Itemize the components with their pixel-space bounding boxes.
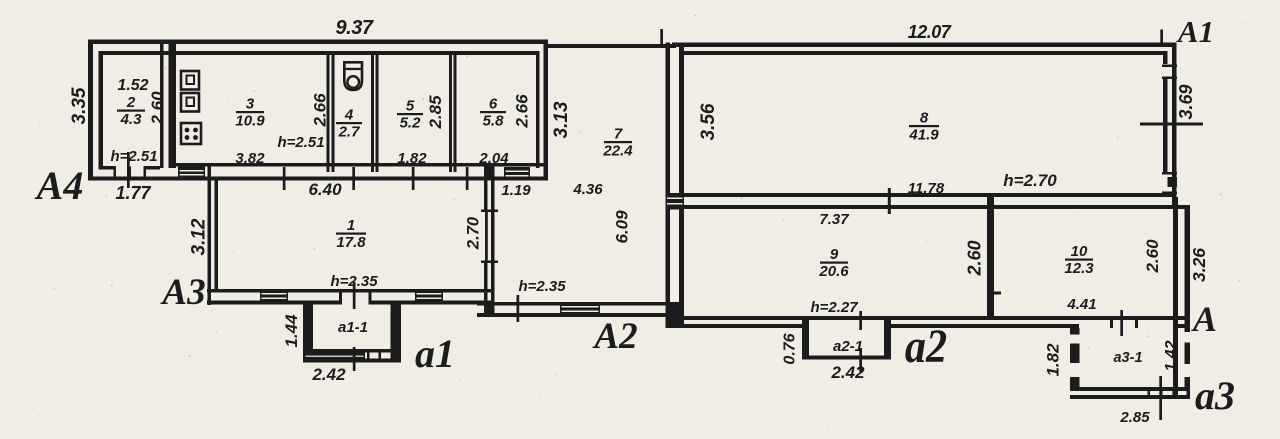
tick: divider foot flag	[989, 283, 992, 301]
tick: dimension 6.40 centre	[352, 167, 355, 190]
tick: a3-1 top (4.41)	[1120, 310, 1123, 336]
window: room 8 right wall lower opening	[1162, 172, 1177, 196]
fixture: stove with 4 burners (room 3)	[181, 123, 201, 144]
wall: a2-1 bottom	[802, 356, 891, 360]
wall: a1-1 left	[303, 305, 313, 363]
wall: room 1 right door leaf	[485, 212, 488, 261]
svg-text:1.77: 1.77	[115, 183, 151, 203]
wall: room 1 bottom top line (A3)	[207, 289, 495, 293]
svg-text:3.13: 3.13	[551, 101, 572, 138]
svg-text:2.66: 2.66	[513, 94, 532, 129]
wall: a1-1 right	[391, 305, 402, 363]
tick: a1-1 door jamb left	[339, 293, 342, 305]
svg-text:7.37: 7.37	[819, 211, 849, 228]
svg-text:4.41: 4.41	[1066, 296, 1096, 313]
tick: dimension 3.69 cross line	[1140, 123, 1203, 126]
wall: left block right outer	[544, 40, 549, 181]
tick: a1-1 door jamb right	[369, 293, 372, 305]
wall: left block bottom outer line	[88, 177, 548, 181]
svg-text:h=2.70: h=2.70	[1003, 171, 1057, 190]
svg-text:h=2.27: h=2.27	[810, 299, 858, 316]
window: room 1 bottom west	[260, 289, 288, 305]
room label 7 / 22.4	[602, 126, 633, 160]
svg-text:12.3: 12.3	[1064, 260, 1094, 277]
wall: A2 bottom line	[477, 313, 674, 317]
wall: a3-1 bottom outer line	[1070, 395, 1190, 399]
svg-text:A1: A1	[1176, 14, 1214, 49]
wall: A bottom line east segment	[1173, 324, 1190, 328]
svg-text:5.8: 5.8	[483, 113, 505, 130]
room label 6 / 5.8	[480, 96, 506, 130]
window: room 1 bottom east	[415, 289, 443, 305]
svg-text:1.19: 1.19	[501, 182, 531, 199]
wall: left block top inner	[103, 51, 536, 55]
svg-text:10: 10	[1071, 243, 1088, 260]
svg-text:9: 9	[830, 246, 839, 263]
wall: A2 top line	[477, 302, 674, 306]
window: A2 wall hatched sill	[560, 302, 600, 317]
wall: A bottom line west segment	[666, 324, 803, 328]
svg-text:h=2.35: h=2.35	[330, 273, 378, 290]
wall: right section left line b	[679, 47, 684, 328]
svg-text:1: 1	[347, 217, 355, 234]
wall: a1-1 bottom top line	[303, 349, 401, 353]
scan speckles (decorative)	[415, 67, 417, 69]
svg-text:2.04: 2.04	[478, 150, 509, 167]
wall: left block left outer	[88, 40, 93, 181]
wall: room 1 right line a upper	[484, 181, 488, 211]
wall: a2-1 right	[884, 320, 891, 360]
wall: room 8 right outer	[1172, 43, 1177, 207]
svg-text:3.26: 3.26	[1189, 248, 1209, 282]
svg-text:a3-1: a3-1	[1113, 350, 1142, 366]
tick: a3-1 top jamb left	[1110, 320, 1113, 328]
svg-text:3.82: 3.82	[235, 150, 265, 167]
svg-text:A4: A4	[34, 163, 84, 208]
svg-text:a2-1: a2-1	[833, 338, 863, 355]
tick: dimension h=2.35 / a1-1 top	[353, 282, 356, 309]
wall: room 2 bottom inner line	[99, 166, 161, 170]
svg-text:a2: a2	[905, 320, 947, 373]
tick: dimension 3.82/6.40 left	[283, 167, 286, 190]
wall: a2-1 left	[802, 320, 809, 360]
wall: left block right inner	[536, 51, 540, 168]
window: hatched sill under room 3 left	[178, 167, 205, 181]
svg-text:2.42: 2.42	[830, 363, 865, 382]
svg-text:2.7: 2.7	[338, 124, 361, 141]
window: room 2 bottom wall	[114, 166, 147, 178]
wall: room2/room3 divider left line	[160, 44, 164, 168]
svg-text:20.6: 20.6	[818, 263, 849, 280]
fixture: toilet (room 4)	[344, 62, 362, 90]
svg-text:2.85: 2.85	[426, 95, 445, 130]
svg-text:a1-1: a1-1	[338, 319, 368, 336]
wall: a3-1 left upper	[1070, 328, 1080, 335]
svg-text:h=2.51: h=2.51	[277, 134, 324, 151]
wall: junction room1/A2 corner solid	[484, 302, 495, 317]
wall: room 7 top	[548, 44, 676, 48]
svg-text:A3: A3	[160, 272, 205, 313]
wall: room 2 left inner	[99, 51, 104, 167]
tick: dimension h=2.35 (A2)	[517, 295, 520, 322]
svg-text:7: 7	[614, 126, 623, 143]
wall: a3-1 right line b middle	[1185, 343, 1191, 365]
room label 8 / 41.9	[908, 110, 939, 144]
window: a1-1 bottom hatched sill	[304, 352, 365, 363]
svg-text:6.09: 6.09	[613, 210, 632, 244]
svg-text:3.12: 3.12	[189, 218, 210, 255]
wall: a1-1 bottom outer line	[303, 359, 401, 363]
svg-text:A2: A2	[592, 316, 637, 357]
tick: a2-1 bottom (2.42)	[859, 348, 862, 372]
svg-text:5.2: 5.2	[400, 115, 422, 132]
svg-text:41.9: 41.9	[908, 127, 939, 144]
svg-text:3.35: 3.35	[69, 87, 90, 124]
svg-text:17.8: 17.8	[336, 234, 366, 251]
tick: dimension 1.82	[412, 167, 415, 190]
svg-text:12.07: 12.07	[908, 22, 952, 42]
svg-text:A: A	[1191, 299, 1217, 339]
tick: a3-1 top jamb right	[1135, 320, 1138, 328]
tick: dimension 2.04	[466, 167, 469, 190]
wall: room 1 right line b	[491, 166, 495, 306]
tick: dimension 2.42 (a1-1)	[353, 347, 356, 371]
room label 9 / 20.6	[818, 246, 849, 280]
room label 3 / 10.9	[235, 96, 265, 130]
svg-text:2.60: 2.60	[1143, 239, 1162, 274]
tick: room 1 door jamb upper	[481, 210, 498, 213]
svg-text:h=2.51: h=2.51	[110, 148, 157, 165]
svg-text:2.85: 2.85	[1119, 409, 1150, 426]
tick: dimension 12.07 left end	[660, 29, 663, 44]
svg-text:4.36: 4.36	[572, 181, 603, 198]
fixture: kitchen sink 2 (room 3)	[181, 93, 199, 112]
tick: a3-1 bottom (2.85)	[1159, 376, 1162, 420]
fixture: kitchen sink 1 (room 3)	[181, 71, 199, 90]
svg-text:2.60: 2.60	[148, 91, 167, 126]
wall: left block top outer	[88, 40, 548, 45]
wall: right section left line a	[666, 43, 671, 328]
wall: room 8 top inner	[684, 51, 1164, 55]
room label 4 / 2.7	[336, 107, 362, 141]
wall: rooms block right line a	[1173, 197, 1178, 399]
wall: rooms 3-6 bottom inner line	[172, 163, 547, 167]
svg-text:10.9: 10.9	[235, 113, 265, 130]
window: hatched sill left wall junction	[666, 193, 685, 210]
room label 10 / 12.3	[1064, 243, 1094, 277]
svg-text:4: 4	[344, 107, 354, 124]
wall: room 1 bottom outer line west segment	[207, 301, 339, 305]
svg-text:0.76: 0.76	[782, 333, 799, 364]
wall: junction room7/rooms9 corner solid	[666, 302, 685, 328]
wall: room8 / rooms 9-10 band upper line	[666, 193, 1177, 197]
svg-text:2: 2	[126, 94, 136, 111]
svg-text:6.40: 6.40	[308, 180, 342, 199]
wall: room 9 / room 10 divider	[987, 197, 994, 317]
wall: room 1 right wall head	[484, 166, 495, 181]
svg-text:3.56: 3.56	[698, 103, 719, 140]
svg-text:h=2.35: h=2.35	[518, 278, 566, 295]
svg-text:1.42: 1.42	[1163, 340, 1180, 371]
svg-text:1.52: 1.52	[117, 77, 148, 94]
wall: rooms block right line b upper	[1185, 206, 1191, 332]
tick: room 1 door jamb lower	[481, 261, 498, 264]
room label 5 / 5.2	[397, 98, 423, 132]
wall: a3-1 left lower	[1070, 377, 1080, 391]
tick: dimension 11.78 / 7.37	[888, 188, 891, 214]
wall: room2/room3 divider right line	[169, 44, 177, 168]
wall: a3-1 bottom top line	[1070, 387, 1190, 391]
wall: room 1 left outer	[208, 166, 212, 305]
svg-text:2.60: 2.60	[965, 240, 985, 276]
wall: room 1 left inner	[215, 181, 219, 293]
svg-text:9.37: 9.37	[336, 17, 374, 39]
svg-text:a3: a3	[1195, 373, 1235, 418]
window: a3-1 bottom mullions	[1148, 387, 1189, 399]
room label 1 / 17.8	[336, 217, 366, 251]
svg-text:6: 6	[489, 96, 498, 113]
wall: a3-1 left middle	[1070, 344, 1080, 364]
svg-text:a1: a1	[415, 331, 455, 376]
wall: room3/room4 divider	[327, 55, 330, 172]
tick: dimension 12.07 right end	[1160, 30, 1163, 44]
svg-text:22.4: 22.4	[602, 143, 633, 160]
wall: room 8 top outer	[672, 43, 1177, 48]
wall: room4/room5 divider	[371, 55, 374, 172]
tick: dimension 1.77	[127, 152, 130, 188]
window: hatched sill under room 6	[504, 167, 530, 180]
wall: room 1 right line a lower	[484, 263, 488, 302]
svg-text:4.3: 4.3	[120, 111, 143, 128]
svg-text:1.82: 1.82	[397, 150, 427, 167]
wall: A bottom line centre segment	[891, 324, 1079, 328]
svg-text:2.42: 2.42	[311, 365, 346, 384]
window: room 8 right wall upper opening	[1162, 64, 1177, 79]
svg-text:3.69: 3.69	[1176, 84, 1196, 119]
wall: rooms 9-10 bottom top line (A) west segment	[666, 316, 1191, 320]
wall: room8 / rooms 9-10 band lower line	[684, 205, 1190, 209]
svg-text:11.78: 11.78	[908, 180, 945, 197]
tick: a2-1 top (h=2.27)	[859, 311, 862, 330]
wall: room5/room6 divider	[449, 55, 452, 172]
wall: a3-1 right line b lower	[1185, 377, 1191, 399]
svg-text:8: 8	[920, 110, 929, 127]
svg-text:1.44: 1.44	[282, 314, 301, 348]
wall: room 1 bottom outer line east segment	[371, 301, 495, 305]
window: a1-1 bottom right	[367, 349, 381, 363]
svg-text:5: 5	[406, 98, 415, 115]
svg-text:3: 3	[246, 96, 255, 113]
wall: room 8 right inner	[1163, 51, 1168, 197]
room label 2 / 4.3	[117, 94, 145, 128]
